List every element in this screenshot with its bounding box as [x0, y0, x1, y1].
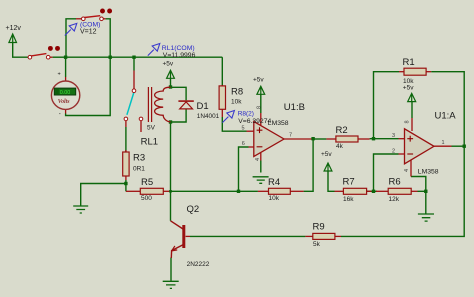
ground G4 (U1:A pin4)	[418, 214, 434, 221]
pin stub Q2 base	[186, 235, 190, 237]
svg-text:7: 7	[289, 133, 292, 139]
svg-text:2: 2	[392, 148, 395, 154]
resistor R8	[219, 86, 225, 109]
op-amp U1:A body	[405, 129, 435, 164]
lead R5 right	[163, 190, 170, 192]
lead R7 right	[367, 190, 372, 192]
svg-text:V=11.9996: V=11.9996	[163, 52, 196, 59]
wire main rail y57	[66, 56, 222, 58]
svg-text:10k: 10k	[231, 99, 242, 106]
wire Q2 emitter to ground G2	[170, 258, 172, 281]
relay core bars	[148, 87, 151, 122]
lead R9 right	[335, 235, 341, 237]
wire relay node down collector column	[170, 122, 172, 221]
svg-text:D1: D1	[197, 101, 209, 112]
OPAMP U1:A	[392, 111, 456, 176]
POWER-TERM	[6, 25, 416, 171]
pin stub relay throw left	[125, 121, 127, 127]
pin stub switch2 left	[76, 18, 81, 20]
OPAMP U1:B	[242, 102, 305, 161]
svg-text:16k: 16k	[343, 196, 354, 203]
DIODE D1	[178, 101, 219, 120]
wire +12v to switch1	[13, 43, 29, 58]
svg-text:Q2: Q2	[187, 204, 200, 215]
pin stub U1A pin1	[434, 145, 452, 147]
svg-text:R7: R7	[343, 177, 355, 188]
switch SW1 state dots	[48, 46, 53, 51]
svg-text:8: 8	[257, 106, 263, 109]
svg-text:5: 5	[242, 125, 245, 131]
pin stub voltmeter bottom	[65, 109, 67, 113]
svg-text:8: 8	[405, 120, 411, 123]
svg-text:R4: R4	[268, 177, 280, 188]
wire node A up to top rail	[66, 19, 76, 57]
node collector-R5 junction	[169, 190, 172, 193]
pin stub U1B pin5	[247, 130, 254, 132]
lead R1 right	[426, 71, 431, 73]
wire Q2 base to R9	[190, 235, 305, 237]
lead R8 bottom	[221, 109, 223, 117]
svg-text:2N2222: 2N2222	[187, 261, 210, 268]
lead R6 left	[376, 190, 388, 192]
node R6-ground junction	[424, 190, 427, 193]
relay throw contact NC	[124, 117, 128, 121]
VOLTMETER	[51, 72, 79, 118]
ground G1 (R3 net)	[73, 206, 88, 213]
wire U1B pin8 stem	[260, 94, 262, 113]
svg-text:0R1: 0R1	[133, 166, 145, 173]
node pin6 junction	[237, 190, 240, 193]
svg-text:RL1: RL1	[141, 136, 158, 147]
resistor R3	[123, 152, 129, 176]
svg-text:R8(2): R8(2)	[238, 111, 254, 118]
pin stub U1B pin7	[284, 138, 314, 140]
power +5v symbol (U1:B pin8)	[257, 86, 265, 94]
power +5v symbol (relay)	[167, 70, 175, 78]
SWITCHES	[28, 9, 112, 59]
resistor R6	[388, 188, 411, 194]
svg-text:U1:B: U1:B	[284, 102, 305, 113]
lead R4 right	[290, 190, 303, 192]
svg-text:+5v: +5v	[253, 76, 264, 83]
lead R6 right	[411, 190, 417, 192]
svg-text:10k: 10k	[269, 195, 280, 202]
switch SW1 lever	[31, 54, 46, 56]
lead R9 left	[305, 235, 312, 237]
node coil top junction	[169, 85, 172, 88]
ground G2 (Q2 emitter)	[163, 281, 179, 288]
node pin3-R1 junction	[372, 137, 375, 140]
svg-text:R9: R9	[313, 222, 325, 233]
svg-text:U1:A: U1:A	[435, 111, 457, 122]
pin stub U1B pin6	[249, 146, 254, 148]
op-amp U1:B body	[254, 122, 284, 157]
probe arrow R8(2)	[222, 111, 234, 123]
svg-text:R1: R1	[403, 57, 415, 68]
wire +5v arrow to relay node	[170, 78, 172, 87]
svg-text:RL1(COM): RL1(COM)	[162, 45, 195, 52]
wire pin2 column	[374, 154, 399, 191]
lead R1 left	[399, 71, 404, 73]
wire R7 to junction	[367, 190, 377, 192]
lead R4 left	[258, 190, 269, 192]
wire U1A pin8 stem	[411, 102, 413, 118]
svg-text:0.00: 0.00	[60, 90, 71, 96]
wire U1B out row	[314, 138, 327, 140]
pin stub U1B pin8	[260, 113, 262, 125]
svg-text:1N4001: 1N4001	[197, 113, 220, 120]
svg-text:Volts: Volts	[58, 99, 70, 105]
svg-text:1: 1	[442, 140, 445, 146]
wire D1 bottom lead	[171, 109, 187, 122]
switch SW1 contacts	[28, 55, 32, 59]
svg-text:R3: R3	[133, 153, 145, 164]
svg-text:+5v: +5v	[321, 151, 332, 158]
svg-text:6: 6	[242, 141, 245, 147]
svg-text:12k: 12k	[389, 196, 400, 203]
wire switch2 to corner down	[106, 19, 111, 57]
relay coil	[155, 87, 171, 122]
resistor R9	[313, 233, 335, 239]
ground G3 (U1:B pin4)	[253, 177, 269, 184]
node relay pole junction	[132, 56, 135, 59]
wire R6 right to ground G4	[418, 191, 426, 213]
relay pole contact	[132, 89, 136, 93]
node A junction	[64, 56, 67, 59]
wire U1B pin4 to ground G3	[260, 161, 262, 173]
resistor R2	[336, 136, 358, 142]
pin stub U1A pin3	[399, 138, 405, 140]
svg-text:R8: R8	[231, 87, 243, 98]
pin stub switch2 right	[103, 18, 106, 20]
switch SW2 state dots	[100, 9, 105, 14]
wire R1 right to output column	[431, 72, 464, 147]
pin stub U1A pin8	[411, 118, 413, 131]
lead R5 left	[126, 190, 140, 192]
svg-text:500: 500	[141, 195, 152, 202]
power +5v symbol (R7)	[324, 163, 332, 171]
resistor R4	[269, 188, 291, 194]
wire R5 row to R4	[170, 190, 258, 192]
probe arrow RL1(COM)	[148, 44, 160, 56]
wire junction to ground G1	[81, 184, 126, 206]
node U1A output junction	[463, 145, 466, 148]
wire U1A out	[452, 145, 465, 147]
node voltmeter-minus junction	[109, 56, 112, 59]
wire +5v arrow to R7	[328, 171, 335, 191]
lead R2 left	[326, 138, 336, 140]
wire pin6 column	[239, 147, 249, 191]
GROUNDS	[73, 177, 434, 289]
svg-text:5k: 5k	[313, 241, 321, 248]
wire R4 right to feedback column	[304, 139, 314, 192]
power +5v symbol (U1:A pin8)	[408, 93, 416, 101]
node R7-R6 junction	[372, 190, 375, 193]
wire R2 right to pin3	[370, 138, 399, 140]
svg-text:+12v: +12v	[6, 25, 22, 32]
wire switch1 to node A	[53, 56, 66, 58]
diode D1 symbol	[178, 100, 193, 102]
pin stub U1A pin4	[410, 160, 412, 177]
wire R9 to right column	[341, 146, 464, 236]
lead R7 left	[335, 190, 344, 192]
node coil bottom junction	[169, 120, 172, 123]
svg-text:+5v: +5v	[163, 61, 174, 68]
pin stub relay pole	[133, 71, 135, 89]
wire left throw to R3	[125, 127, 127, 152]
svg-text:10k: 10k	[403, 78, 414, 85]
resistor R7	[343, 188, 366, 194]
resistor R5	[140, 188, 163, 194]
lead R2 right	[358, 138, 370, 140]
svg-text:4k: 4k	[336, 143, 344, 150]
svg-text:-: -	[59, 112, 61, 118]
PROBES	[65, 22, 272, 125]
switch SW2 lever	[85, 16, 101, 18]
wire voltmeter minus loop	[66, 57, 111, 115]
node R3-ground junction	[124, 182, 127, 185]
pin stub U1B pin4	[260, 153, 262, 161]
TRANSISTOR Q2	[171, 204, 210, 268]
voltmeter display	[54, 88, 75, 95]
wire R8 top	[221, 57, 223, 86]
switch SW2 contacts	[82, 17, 86, 21]
wire D1 top lead	[171, 87, 187, 100]
wire R3 to junction	[125, 180, 127, 191]
pin stub switch1 left	[27, 56, 30, 58]
svg-text:+: +	[58, 72, 61, 78]
svg-text:4: 4	[404, 169, 410, 172]
svg-text:3: 3	[392, 133, 395, 139]
svg-text:LM358: LM358	[418, 169, 439, 176]
relay throw contact NO	[139, 117, 143, 121]
svg-text:4: 4	[255, 158, 261, 161]
lead R8 top	[221, 84, 223, 87]
resistor R1	[404, 68, 426, 75]
wire R8 bottom to pin5	[222, 117, 246, 131]
probe arrow node A	[65, 23, 77, 35]
red pin stubs	[28, 19, 452, 237]
node R4 feedback junction	[311, 137, 314, 140]
pin stub U1A pin2	[399, 153, 405, 155]
pin stub voltmeter top	[65, 77, 67, 81]
pin stub relay throw right NO	[140, 121, 142, 132]
wire U1A pin4	[411, 177, 426, 192]
wire R1 left column	[374, 72, 400, 139]
RELAY RL1	[124, 87, 170, 147]
svg-text:5V: 5V	[147, 124, 156, 131]
svg-text:V=12: V=12	[80, 28, 97, 35]
relay lever (cyan)	[127, 93, 134, 115]
RESISTORS	[123, 57, 426, 248]
pin stub R3 top	[125, 150, 127, 152]
wire voltmeter plus	[65, 57, 67, 77]
svg-text:V=6.39274: V=6.39274	[238, 118, 271, 125]
voltmeter body	[51, 81, 79, 109]
svg-text:R6: R6	[389, 177, 401, 188]
svg-text:R5: R5	[141, 177, 153, 188]
power +12v symbol	[9, 34, 17, 43]
pin stub R3 bottom	[125, 176, 127, 180]
pin stub switch1 right	[50, 56, 53, 58]
svg-text:R2: R2	[336, 125, 348, 136]
svg-text:+5v: +5v	[403, 84, 414, 91]
wire relay pole	[133, 57, 135, 70]
transistor Q2 symbol	[182, 225, 185, 248]
